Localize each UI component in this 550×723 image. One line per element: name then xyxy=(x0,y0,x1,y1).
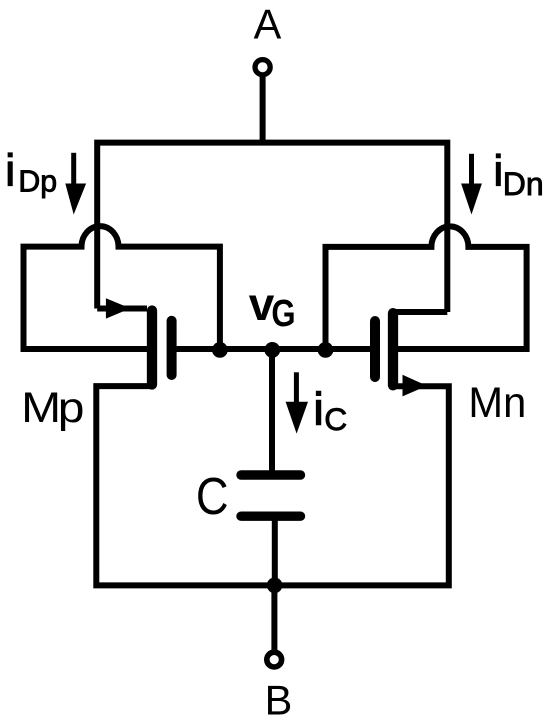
transistor Mn drain wire xyxy=(393,309,447,315)
junction dot right (Mn gate) xyxy=(318,342,334,358)
wire bottom rail with Mp drain and Mn source drops xyxy=(96,386,449,585)
wire capacitor to bottom rail xyxy=(272,517,278,585)
capacitor C bottom plate xyxy=(241,512,301,521)
current arrow iC xyxy=(286,372,308,433)
terminal A circle xyxy=(255,60,270,75)
wire vG net xyxy=(172,346,375,352)
wire Mp gate-body loop with crossover hop xyxy=(24,226,220,349)
transistor Mn channel bar xyxy=(388,313,398,385)
svg-text:i: i xyxy=(314,384,324,435)
svg-text:Mp: Mp xyxy=(21,383,83,431)
wire Mn gate-body loop with crossover hop xyxy=(326,226,527,349)
capacitor C top plate xyxy=(241,470,301,479)
svg-text:Mn: Mn xyxy=(468,378,526,425)
wire top rail with side drops xyxy=(97,143,447,312)
junction dot center (vG node) xyxy=(264,342,280,358)
junction dot bottom (B node) xyxy=(267,578,283,594)
wire vG node down to capacitor xyxy=(269,349,275,472)
current arrow iDn xyxy=(461,154,482,215)
svg-text:G: G xyxy=(271,292,295,335)
junction dot left (Mp gate) xyxy=(212,342,228,358)
wire A terminal to top rail xyxy=(260,77,266,143)
current arrow iDp xyxy=(65,153,86,215)
svg-text:Dn: Dn xyxy=(503,166,544,202)
wire bottom rail to B terminal xyxy=(271,585,277,650)
transistor Mn source arrowhead xyxy=(403,375,428,397)
terminal B circle xyxy=(267,652,282,667)
svg-text:i: i xyxy=(494,148,504,196)
svg-text:C: C xyxy=(196,468,229,526)
svg-text:i: i xyxy=(5,147,15,196)
svg-text:A: A xyxy=(254,1,282,48)
transistor Mp gate bar xyxy=(167,321,177,375)
transistor Mp source arrowhead xyxy=(106,298,131,318)
transistor Mp channel bar xyxy=(147,311,157,385)
transistor Mp source wire xyxy=(97,306,147,312)
transistor Mn gate bar xyxy=(370,321,380,377)
svg-text:C: C xyxy=(324,401,347,437)
svg-text:Dp: Dp xyxy=(18,165,57,198)
svg-text:B: B xyxy=(265,677,293,723)
